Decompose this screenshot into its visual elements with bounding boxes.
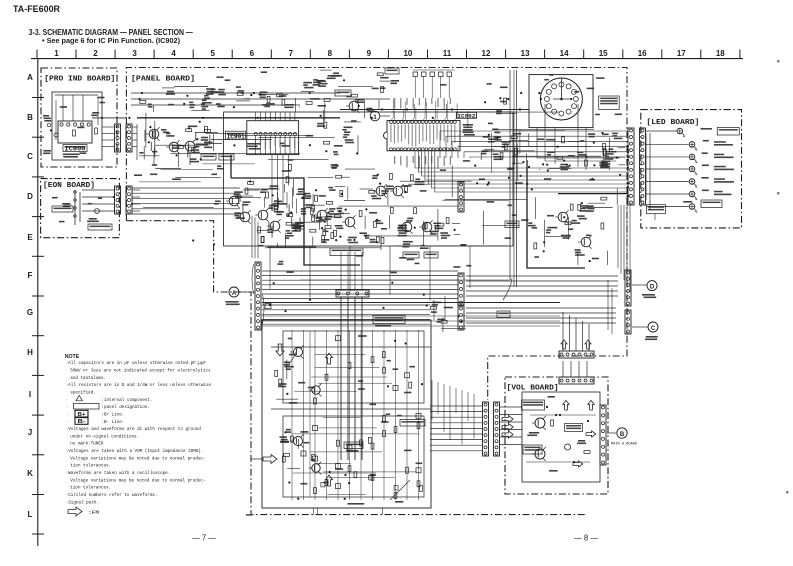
svg-text:MAIN A BOARD: MAIN A BOARD	[611, 443, 637, 447]
svg-text:C: C	[651, 326, 656, 332]
svg-text:[VOL BOARD]: [VOL BOARD]	[507, 385, 559, 393]
svg-text:·Voltages and waveforms are dc: ·Voltages and waveforms are dc with resp…	[66, 427, 202, 432]
svg-text:·All resistors are in Ω and 1/: ·All resistors are in Ω and 1/4W or less…	[66, 383, 212, 388]
svg-text:·Waveforms are taken with a os: ·Waveforms are taken with a oscilloscope…	[66, 471, 171, 476]
svg-text:IC900: IC900	[65, 146, 86, 153]
svg-text::FM: :FM	[88, 510, 99, 516]
svg-text:· :internal compon: · :internal component.	[66, 398, 153, 403]
svg-text:under no-signal conditions.: under no-signal conditions.	[70, 434, 139, 439]
svg-text:A: A	[232, 291, 237, 297]
svg-text:Voltage variations may be note: Voltage variations may be noted due to n…	[70, 478, 205, 483]
svg-text:[PANEL BOARD]: [PANEL BOARD]	[131, 76, 195, 84]
svg-text:[LED BOARD]: [LED BOARD]	[646, 119, 699, 127]
svg-text:· :panel designati: · :panel designation.	[66, 405, 150, 410]
svg-text:16: 16	[638, 49, 647, 58]
svg-text:3: 3	[132, 49, 137, 58]
svg-text:TA-FE600R: TA-FE600R	[13, 4, 60, 15]
svg-text:1: 1	[54, 49, 59, 58]
svg-text:D: D	[650, 285, 655, 291]
svg-text:·Voltages are taken with a VOM: ·Voltages are taken with a VOM (Input im…	[66, 449, 204, 454]
svg-text:G: G	[27, 308, 33, 317]
svg-text:5: 5	[210, 49, 215, 58]
svg-text:B: B	[620, 432, 625, 438]
svg-text:A: A	[27, 73, 33, 82]
svg-text:10: 10	[403, 49, 412, 58]
svg-text:18: 18	[716, 49, 725, 58]
svg-text:— 7 —: — 7 —	[192, 534, 216, 543]
svg-text:— 8 —: — 8 —	[574, 534, 598, 543]
svg-text:B: B	[27, 113, 33, 122]
svg-text:no mark:TUNER: no mark:TUNER	[70, 442, 104, 447]
svg-text:6: 6	[250, 49, 255, 58]
svg-text:17: 17	[677, 49, 686, 58]
svg-text:E: E	[27, 233, 33, 242]
svg-text:4: 4	[171, 49, 176, 58]
svg-text:K: K	[27, 469, 33, 478]
svg-text:*: *	[50, 129, 53, 136]
svg-text:C: C	[27, 152, 33, 161]
svg-text:11: 11	[443, 49, 452, 58]
svg-text:IC992: IC992	[457, 112, 476, 119]
svg-text:7: 7	[289, 49, 294, 58]
svg-text:I: I	[29, 390, 31, 399]
svg-text:14: 14	[560, 49, 569, 58]
svg-text:·Signal path.: ·Signal path.	[66, 500, 99, 505]
svg-text:specified.: specified.	[70, 391, 96, 396]
svg-text:·Circled numbers refer to wave: ·Circled numbers refer to waveforms.	[66, 493, 158, 498]
svg-text:B-: B-	[78, 419, 86, 425]
svg-text:B+: B+	[78, 412, 86, 418]
svg-text:F: F	[28, 271, 33, 280]
svg-text:·All capacitors are in µF unle: ·All capacitors are in µF unless otherwi…	[66, 361, 207, 366]
svg-text:OFF: OFF	[64, 203, 73, 208]
svg-text:tion tolerances.: tion tolerances.	[70, 464, 111, 469]
svg-text:9: 9	[367, 49, 372, 58]
svg-text:[EON BOARD]: [EON BOARD]	[43, 182, 95, 190]
svg-text:and tantalums.: and tantalums.	[70, 376, 106, 381]
svg-text:NOTE: NOTE	[65, 354, 80, 360]
svg-text:J: J	[28, 428, 32, 437]
svg-text:H: H	[27, 348, 33, 357]
svg-text:L: L	[28, 510, 33, 519]
svg-text:D: D	[27, 192, 33, 201]
svg-text:13: 13	[521, 49, 530, 58]
svg-text:12: 12	[482, 49, 491, 58]
svg-text:tion tolerances.: tion tolerances.	[70, 486, 111, 491]
svg-text:[PRO IND BOARD]: [PRO IND BOARD]	[44, 76, 115, 84]
svg-text:Voltage variations may be note: Voltage variations may be noted due to n…	[70, 456, 205, 461]
svg-text:50WV or less are not indicated: 50WV or less are not indicated except fo…	[70, 369, 211, 374]
svg-text:• See page 6 for IC Pin Functi: • See page 6 for IC Pin Function. (IC902…	[42, 36, 180, 45]
svg-text:15: 15	[599, 49, 608, 58]
svg-text:8: 8	[328, 49, 333, 58]
svg-text:2: 2	[93, 49, 98, 58]
